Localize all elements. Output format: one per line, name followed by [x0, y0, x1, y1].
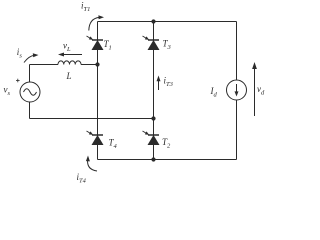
wire source bottom vertical	[29, 102, 31, 119]
current iT3 arrow	[157, 76, 174, 91]
thyristor T2	[143, 131, 160, 145]
thyristor T1	[87, 36, 104, 50]
wire right side dc (lower segment)	[236, 100, 238, 160]
svg-text:iT1: iT1	[81, 1, 90, 14]
voltage label vL with arrow	[58, 41, 82, 57]
svg-text:vd: vd	[257, 84, 265, 97]
thyristor T4	[87, 131, 104, 145]
svg-text:T1: T1	[104, 39, 112, 52]
inductor L	[58, 61, 81, 65]
wire ac bottom (source to node B)	[30, 118, 154, 120]
wire top rail (+ dc bus)	[98, 21, 237, 23]
voltage vd arrow	[252, 62, 265, 116]
svg-text:vs: vs	[4, 85, 11, 98]
svg-text:T4: T4	[109, 138, 118, 151]
current iT1 curved arrow	[81, 1, 104, 31]
wire right side dc (upper segment)	[236, 22, 238, 81]
wire ac top (source to node A)	[30, 64, 59, 66]
node A junction	[95, 62, 99, 66]
svg-text:iT3: iT3	[164, 76, 174, 89]
svg-text:T3: T3	[163, 39, 172, 52]
current source Id	[227, 80, 247, 100]
ac source vs	[20, 82, 40, 102]
svg-text:Id: Id	[210, 86, 218, 99]
wire right bridge leg	[153, 22, 155, 160]
thyristor T3	[143, 36, 160, 50]
svg-text:L: L	[66, 71, 72, 81]
plus sign of source	[16, 79, 20, 83]
wire bottom rail (- dc bus)	[98, 159, 237, 161]
svg-text:iT4: iT4	[77, 172, 87, 185]
svg-text:is: is	[17, 47, 23, 60]
wire inductor to node A	[81, 64, 98, 66]
svg-text:T2: T2	[162, 137, 171, 150]
wire left bridge leg	[97, 22, 99, 160]
node B junction	[151, 116, 155, 120]
wire source top vertical	[29, 65, 31, 83]
current label is (curved arrow)	[17, 47, 39, 63]
current iT4 curved arrow	[77, 156, 98, 185]
svg-text:vL: vL	[63, 41, 71, 54]
junction bottom rail at T2	[151, 157, 155, 161]
junction top rail at T3	[151, 19, 155, 23]
